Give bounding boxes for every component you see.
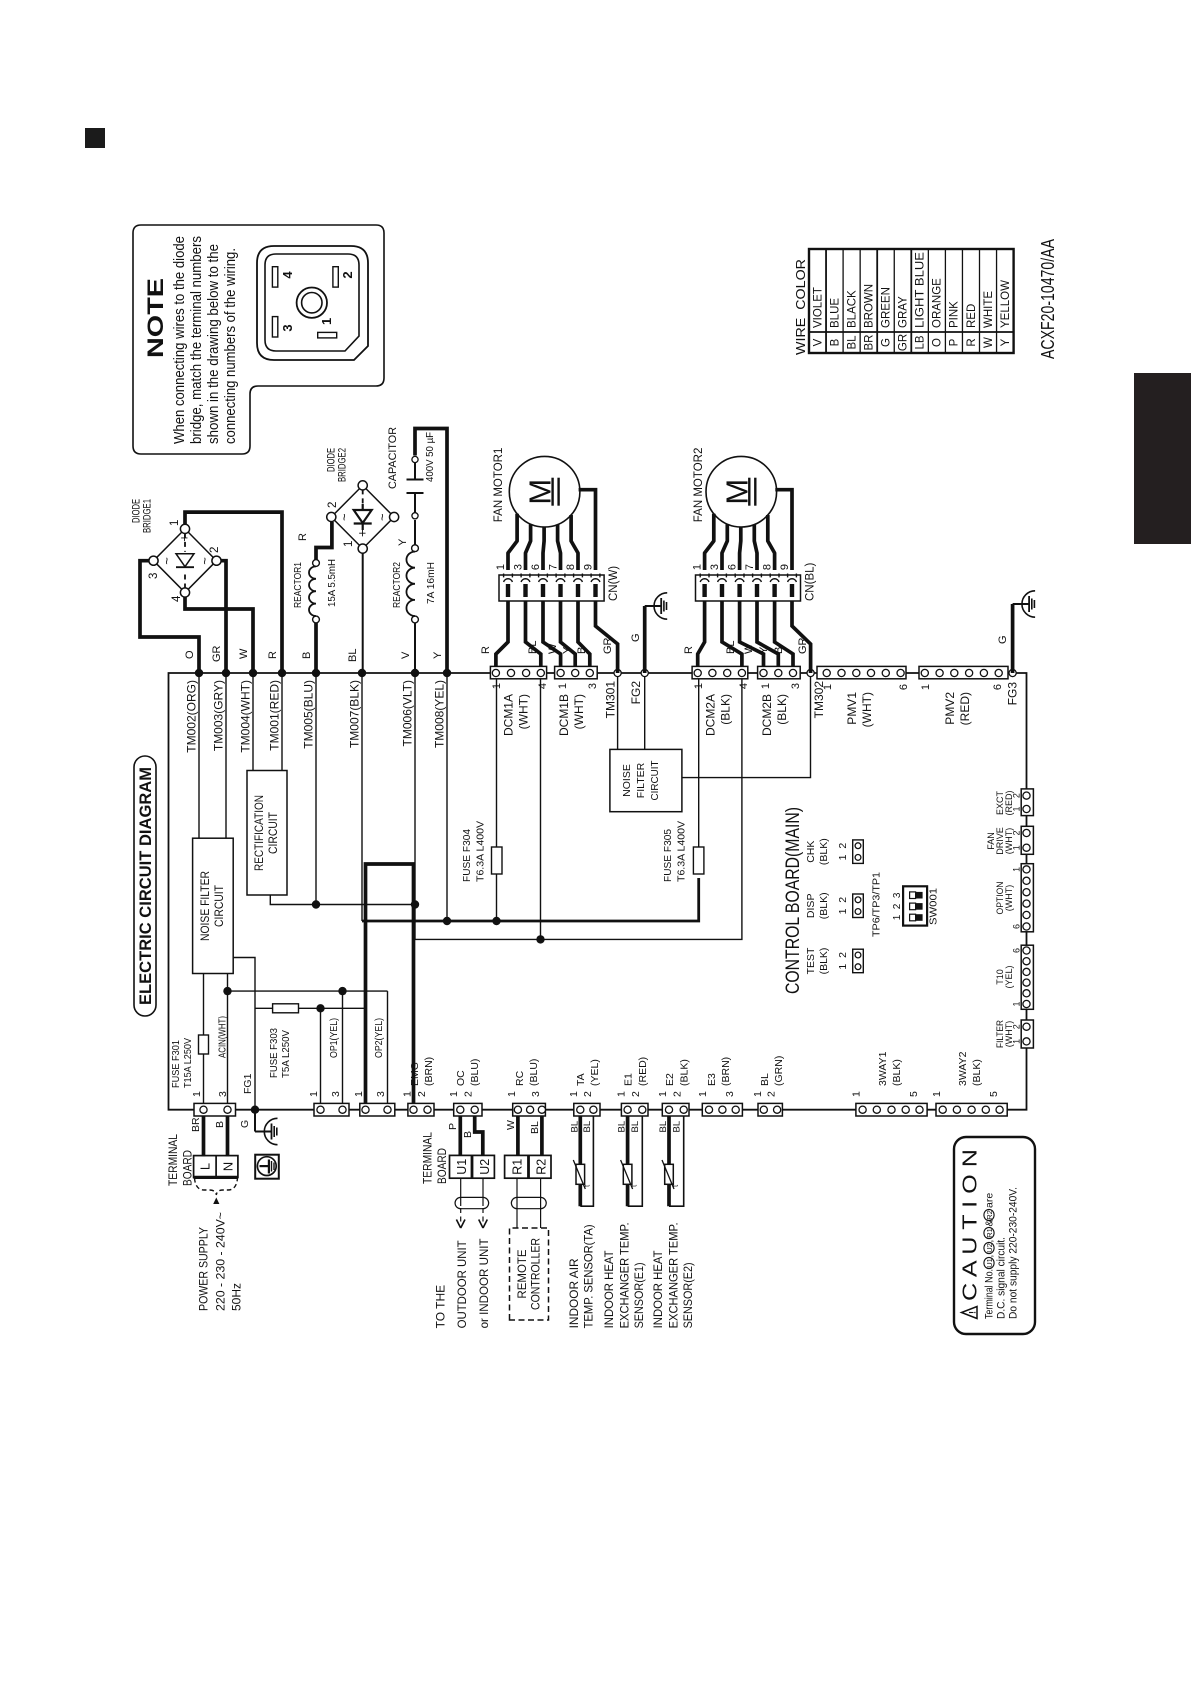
reactor2 coil: [391, 538, 437, 623]
svg-text:400V 50 µF: 400V 50 µF: [424, 432, 436, 482]
wire OP2 pin1 to EMG pin1 loop: [366, 864, 414, 1104]
svg-text:2: 2: [672, 1091, 684, 1097]
capacitor: [387, 427, 436, 493]
svg-text:RED: RED: [966, 304, 978, 328]
connector CN(BL): [696, 574, 801, 602]
svg-text:TM004(WHT): TM004(WHT): [239, 680, 253, 753]
svg-text:TO THE: TO THE: [434, 1285, 448, 1329]
connector PMV1 (WHT): [817, 666, 906, 678]
svg-text:Y: Y: [397, 538, 409, 546]
wire TM004 into rectification circuit: [252, 673, 254, 771]
svg-text:R: R: [297, 533, 309, 541]
svg-text:BROWN: BROWN: [863, 284, 875, 328]
svg-text:2: 2: [1012, 793, 1022, 798]
wire reactor2 to capacitor: [414, 520, 416, 545]
svg-text:1: 1: [308, 1091, 320, 1097]
connector ACIN(WHT): [194, 1103, 236, 1116]
svg-text:POWER SUPPLY: POWER SUPPLY: [197, 1227, 211, 1311]
svg-text:W: W: [983, 337, 995, 348]
wire TM006 V to reactor2: [414, 623, 416, 673]
svg-text:3: 3: [892, 892, 903, 898]
diode bridge connector drawing inner square: [265, 254, 359, 351]
svg-text:P: P: [447, 1123, 459, 1130]
ground symbol FG3: [1013, 591, 1036, 617]
svg-text:1: 1: [822, 684, 834, 690]
svg-text:WIRE COLOR: WIRE COLOR: [793, 259, 808, 355]
interior wire TM007: [361, 673, 363, 921]
svg-text:(BLK): (BLK): [818, 892, 830, 919]
svg-text:V: V: [400, 651, 412, 659]
svg-text:PMV2: PMV2: [943, 692, 957, 725]
connector DISP (BLK): [805, 892, 863, 919]
svg-text:t: t: [582, 1184, 591, 1187]
svg-text:3: 3: [375, 1091, 387, 1097]
svg-text:3WAY2: 3WAY2: [957, 1051, 969, 1086]
svg-text:2: 2: [837, 952, 849, 958]
svg-text:T6.3A L400V: T6.3A L400V: [475, 821, 487, 882]
svg-text:BL: BL: [630, 1121, 641, 1133]
title pill ELECTRIC CIRCUIT DIAGRAM: [134, 756, 156, 1016]
svg-text:B: B: [462, 1131, 474, 1138]
connector E2 (BLK): [662, 1103, 689, 1116]
svg-text:1: 1: [920, 684, 932, 690]
wire color table: [793, 249, 1014, 355]
svg-text:CIRCUIT: CIRCUIT: [268, 812, 280, 854]
wire B from terminal N to ACIN pin3: [226, 1116, 230, 1156]
svg-text:EXCHANGER TEMP.: EXCHANGER TEMP.: [667, 1222, 681, 1328]
svg-text:1: 1: [851, 1091, 863, 1097]
svg-text:CIRCUIT: CIRCUIT: [649, 760, 661, 801]
svg-text:TM008(YEL): TM008(YEL): [433, 680, 447, 748]
wire TM002 O to diode bridge1 pin3: [140, 561, 199, 673]
capacitor junction circle left: [412, 513, 418, 519]
wire FG1 to noise filter bottom: [233, 958, 255, 1110]
svg-text:VIOLET: VIOLET: [812, 287, 824, 328]
svg-text:TP6/TP3/TP1: TP6/TP3/TP1: [871, 872, 883, 937]
FAN MOTOR1 wires to connector: [579, 490, 596, 570]
svg-text:T6.3A L400V: T6.3A L400V: [676, 821, 688, 882]
svg-text:LIGHT BLUE: LIGHT BLUE: [915, 252, 927, 328]
svg-text:2: 2: [1012, 1024, 1022, 1029]
connector 3WAY2 (BLK): [936, 1103, 1007, 1116]
svg-text:B: B: [301, 652, 313, 659]
terminal TM007(BLK) junction on bus: [358, 669, 366, 677]
svg-text:INDOOR HEAT: INDOOR HEAT: [602, 1250, 616, 1329]
svg-text:SENSOR(E2): SENSOR(E2): [681, 1262, 695, 1328]
svg-text:R: R: [683, 646, 695, 654]
wires R1 R2 to remote controller: [516, 1178, 518, 1228]
svg-text:4: 4: [280, 271, 295, 279]
FAN MOTOR2 wires to connector: [775, 490, 792, 570]
fuse F305 on DCM2A pin1 wire: [698, 679, 700, 848]
svg-text:1: 1: [495, 564, 507, 570]
svg-text:TEMP. SENSOR(TA): TEMP. SENSOR(TA): [582, 1224, 596, 1328]
terminal board U1 U2 R1 R2: [421, 1132, 552, 1184]
wire B from OC pin2 to U2: [475, 1116, 483, 1155]
svg-text:6: 6: [898, 684, 910, 690]
thermistor E2: [662, 1116, 684, 1206]
connector TA (YEL): [574, 1103, 600, 1116]
svg-text:TA: TA: [575, 1073, 587, 1086]
svg-text:B: B: [773, 647, 785, 654]
svg-text:6: 6: [1012, 924, 1022, 929]
svg-text:R2: R2: [535, 1159, 549, 1175]
connector OC (BLU): [454, 1103, 482, 1116]
svg-text:FUSE F305: FUSE F305: [662, 829, 674, 882]
svg-text:FAN MOTOR2: FAN MOTOR2: [693, 448, 705, 523]
svg-text:4: 4: [738, 683, 750, 689]
svg-text:GREEN: GREEN: [881, 287, 893, 328]
svg-text:1: 1: [693, 683, 705, 689]
terminal TM005(BLU) junction on bus: [312, 669, 320, 677]
protective earth screw symbol: [255, 1155, 279, 1179]
svg-text:1: 1: [760, 683, 772, 689]
svg-text:6: 6: [1012, 948, 1022, 953]
svg-text:E1: E1: [623, 1073, 635, 1086]
noise filter circuit box: [193, 838, 234, 973]
svg-text:3: 3: [709, 564, 721, 570]
svg-text:R: R: [966, 338, 978, 346]
svg-text:(RED): (RED): [637, 1057, 649, 1086]
fuse F303 wire from FG1 wire down through OP pins 1: [255, 1007, 273, 1009]
connector FAN DRIVE (WHT): [1021, 826, 1033, 854]
svg-text:R: R: [267, 651, 279, 659]
svg-text:N: N: [221, 1162, 236, 1171]
svg-text:1: 1: [319, 318, 334, 325]
svg-text:2: 2: [1012, 830, 1022, 835]
svg-text:U1: U1: [455, 1159, 469, 1175]
svg-text:t: t: [630, 1184, 639, 1187]
svg-text:3: 3: [790, 683, 802, 689]
remote controller dashed box: [510, 1228, 549, 1320]
svg-text:5: 5: [908, 1091, 920, 1097]
connector CHK (BLK): [805, 838, 863, 865]
svg-text:2: 2: [766, 1091, 778, 1097]
svg-text:OUTDOOR UNIT: OUTDOOR UNIT: [455, 1240, 469, 1329]
rectification circuit box: [247, 771, 287, 896]
svg-text:CONTROLLER: CONTROLLER: [531, 1238, 543, 1310]
svg-text:3: 3: [330, 1091, 342, 1097]
svg-text:1: 1: [557, 683, 569, 689]
svg-text:ACXF20-10470/AA: ACXF20-10470/AA: [1038, 239, 1058, 359]
svg-text:NOISE: NOISE: [621, 764, 633, 797]
svg-text:7: 7: [744, 564, 756, 570]
svg-text:OP1(YEL): OP1(YEL): [328, 1018, 340, 1058]
svg-text:R: R: [480, 646, 492, 654]
svg-text:(WHT): (WHT): [517, 694, 531, 729]
svg-text:(BLK): (BLK): [891, 1059, 903, 1086]
terminal TM002(ORG) junction on bus: [195, 669, 203, 677]
svg-text:TM005(BLU): TM005(BLU): [302, 680, 316, 749]
svg-text:GR: GR: [211, 645, 223, 662]
connector slot 1: [318, 332, 337, 338]
svg-text:P: P: [949, 338, 961, 346]
svg-text:BR: BR: [190, 1117, 202, 1132]
terminal TM301: [614, 669, 621, 676]
ground symbol FG2: [645, 593, 668, 619]
svg-text:1: 1: [1012, 1039, 1022, 1044]
interior vertical feeder from rectification circuit: [270, 895, 415, 905]
svg-text:BLUE: BLUE: [829, 298, 841, 328]
svg-text:G: G: [881, 338, 893, 347]
svg-text:INDOOR AIR: INDOOR AIR: [567, 1258, 581, 1328]
svg-text:+: +: [177, 534, 192, 542]
svg-text:Y: Y: [432, 651, 444, 659]
svg-text:~: ~: [159, 557, 174, 565]
connector TEST (BLK): [805, 947, 863, 974]
svg-text:FUSE F301: FUSE F301: [170, 1040, 182, 1088]
svg-text:B: B: [829, 338, 841, 346]
svg-text:(BLK): (BLK): [679, 1059, 691, 1086]
svg-text:1: 1: [1012, 1001, 1022, 1006]
svg-text:(WHT): (WHT): [572, 694, 586, 729]
svg-text:FILTER: FILTER: [635, 762, 647, 798]
svg-text:INDOOR HEAT: INDOOR HEAT: [651, 1250, 665, 1329]
capacitor terminal circle right: [412, 456, 418, 462]
svg-text:+: +: [355, 529, 370, 537]
svg-text:C A U T I O N: C A U T I O N: [960, 1149, 982, 1301]
svg-text:T15A L250V: T15A L250V: [182, 1038, 194, 1088]
svg-text:BL: BL: [672, 1121, 683, 1133]
svg-text:BOARD: BOARD: [181, 1150, 195, 1186]
svg-text:1: 1: [568, 1091, 580, 1097]
svg-text:2: 2: [892, 903, 903, 909]
svg-text:TM007(BLK): TM007(BLK): [348, 680, 362, 748]
svg-text:1: 1: [657, 1091, 669, 1097]
svg-text:CONTROL BOARD(MAIN): CONTROL BOARD(MAIN): [782, 807, 804, 994]
svg-text:BL: BL: [759, 1073, 771, 1086]
wire TM001 into rectification circuit: [281, 673, 283, 771]
wire reactor1 to diode bridge2 pin2: [316, 522, 332, 560]
svg-text:LB: LB: [915, 335, 927, 349]
terminal TM003(GRY) junction on bus: [222, 669, 230, 677]
svg-text:FG2: FG2: [629, 681, 643, 705]
svg-text:BRIDGE1: BRIDGE1: [142, 499, 154, 533]
connector FILTER (WHT): [1021, 1020, 1033, 1048]
svg-text:ELECTRIC CIRCUIT DIAGRAM: ELECTRIC CIRCUIT DIAGRAM: [137, 767, 155, 1005]
svg-text:Y: Y: [758, 646, 770, 654]
svg-text:RECTIFICATION: RECTIFICATION: [254, 795, 266, 871]
interior wire TM006: [414, 673, 416, 939]
svg-text:REACTOR1: REACTOR1: [292, 562, 304, 608]
svg-text:1: 1: [169, 520, 181, 526]
wire TM002 into noise filter: [198, 673, 200, 838]
svg-text:(BRN): (BRN): [423, 1057, 435, 1086]
diode bridge2 DB2: [326, 448, 399, 553]
wire ACIN pin1 with fuse F301 to noise filter: [203, 1054, 205, 1104]
svg-text:GR: GR: [602, 637, 614, 654]
svg-text:3WAY1: 3WAY1: [877, 1051, 889, 1086]
svg-text:BL: BL: [658, 1121, 669, 1133]
svg-text:(BLK): (BLK): [818, 948, 830, 975]
FAN MOTOR1: [493, 448, 580, 527]
svg-text:FG3: FG3: [1006, 682, 1020, 706]
svg-text:T5A L250V: T5A L250V: [280, 1030, 292, 1078]
svg-text:GR: GR: [898, 334, 910, 351]
svg-text:1: 1: [353, 1091, 365, 1097]
diode bridge connector drawing outer square: [257, 246, 368, 360]
svg-text:1: 1: [402, 1091, 414, 1097]
svg-text:(BLK): (BLK): [719, 694, 733, 725]
svg-text:W: W: [743, 643, 755, 654]
svg-text:TM002(ORG): TM002(ORG): [185, 680, 199, 753]
svg-text:CHK: CHK: [805, 841, 817, 863]
svg-text:CN(W): CN(W): [608, 566, 620, 601]
wire OP2 pin3: [387, 991, 389, 1103]
svg-text:TEST: TEST: [805, 947, 817, 974]
svg-text:ORANGE: ORANGE: [932, 278, 944, 328]
svg-text:1: 1: [931, 1091, 943, 1097]
svg-text:E3: E3: [706, 1073, 718, 1086]
svg-text:EXCHANGER TEMP.: EXCHANGER TEMP.: [618, 1222, 632, 1328]
svg-text:(YEL): (YEL): [1004, 965, 1014, 988]
section marker black square: [85, 128, 105, 148]
connector EXCT (RED): [1021, 789, 1033, 816]
svg-text:G: G: [239, 1120, 251, 1128]
interior vertical feeder TM007 to fuses: [362, 878, 699, 921]
connector slot 4: [272, 267, 277, 287]
svg-text:W: W: [505, 1120, 517, 1130]
svg-text:1: 1: [343, 541, 355, 547]
connector OPTION (WHT): [1021, 864, 1033, 932]
side index black tab: [1134, 373, 1191, 544]
svg-text:1: 1: [448, 1091, 460, 1097]
svg-text:R1: R1: [511, 1159, 525, 1175]
svg-text:Terminal No.: Terminal No.: [984, 1269, 996, 1319]
wire noise filter 2 to TM302: [682, 673, 811, 778]
svg-text:50Hz: 50Hz: [230, 1283, 244, 1311]
svg-text:BRIDGE2: BRIDGE2: [337, 448, 349, 482]
connector T10 (YEL): [1021, 945, 1033, 1009]
wire FG1 to ground: [254, 1110, 256, 1132]
svg-text:!: !: [968, 1311, 978, 1314]
svg-text:DCM1B: DCM1B: [557, 694, 571, 736]
svg-text:(YEL): (YEL): [589, 1059, 601, 1086]
svg-text:FUSE F303: FUSE F303: [268, 1028, 280, 1078]
svg-text:TM001(RED): TM001(RED): [268, 680, 282, 751]
wire TM001 R to diode bridge1 pin1: [185, 512, 282, 673]
svg-text:shown in the drawing below to: shown in the drawing below to the: [206, 244, 222, 444]
control board outline (top edge, right bus edge, left edge, bottom edge): [169, 673, 1027, 1110]
svg-text:2: 2: [630, 1091, 642, 1097]
svg-text:(WHT): (WHT): [860, 692, 874, 727]
svg-text:8: 8: [762, 564, 774, 570]
svg-text:1: 1: [1012, 845, 1022, 850]
svg-text:2: 2: [209, 547, 221, 553]
svg-text:(BLK): (BLK): [971, 1059, 983, 1086]
svg-text:6: 6: [727, 564, 739, 570]
svg-text:1: 1: [506, 1091, 518, 1097]
svg-text:G: G: [997, 635, 1009, 644]
svg-text:FAN MOTOR1: FAN MOTOR1: [493, 448, 505, 523]
svg-text:9: 9: [583, 564, 595, 570]
svg-text:When connecting wires to the d: When connecting wires to the diode: [172, 236, 188, 444]
cable sheath stadium: [511, 1197, 546, 1208]
svg-text:3: 3: [724, 1091, 736, 1097]
svg-text:EMG: EMG: [409, 1062, 421, 1086]
svg-text:15A 5.5mH: 15A 5.5mH: [326, 559, 338, 607]
svg-text:1: 1: [837, 854, 849, 860]
svg-text:1: 1: [191, 1091, 203, 1097]
connector E3 (BRN): [702, 1103, 742, 1116]
svg-text:1: 1: [616, 1091, 628, 1097]
wire BL from RC pin3 to R2: [540, 1116, 544, 1155]
svg-text:2: 2: [837, 843, 849, 849]
svg-text:7: 7: [548, 564, 560, 570]
svg-text:TM301: TM301: [604, 681, 618, 719]
svg-text:SW001: SW001: [928, 888, 940, 925]
svg-text:1: 1: [1012, 867, 1022, 872]
svg-text:B: B: [576, 647, 588, 654]
svg-text:3: 3: [280, 324, 295, 331]
svg-text:connecting numbers of the wiri: connecting numbers of the wiring.: [223, 248, 239, 444]
connector DCM2A (BLK): [692, 666, 748, 678]
svg-text:2: 2: [340, 271, 355, 278]
svg-text:(BLU): (BLU): [469, 1059, 481, 1086]
svg-text:W: W: [238, 648, 250, 659]
caution box: [954, 1137, 1035, 1334]
svg-text:BR: BR: [863, 335, 875, 351]
svg-text:B: B: [214, 1121, 226, 1128]
wire TM008 Y to capacitor top: [415, 429, 447, 674]
svg-text:4: 4: [171, 595, 183, 602]
svg-text:DCM2A: DCM2A: [704, 694, 718, 736]
svg-text:ACIN(WHT): ACIN(WHT): [217, 1016, 229, 1058]
svg-text:L: L: [198, 1163, 213, 1170]
svg-text:Y: Y: [1000, 338, 1012, 346]
power supply brace and arrow: [195, 1178, 238, 1204]
connector DCM1B (WHT): [555, 666, 598, 678]
svg-text:3: 3: [587, 683, 599, 689]
svg-text:2: 2: [837, 897, 849, 903]
svg-text:BL: BL: [527, 641, 539, 654]
svg-text:1: 1: [491, 683, 503, 689]
thermistor TA: [573, 1116, 593, 1206]
connector OP1(YEL): [314, 1103, 349, 1116]
svg-text:1: 1: [837, 908, 849, 914]
svg-text:1: 1: [752, 1091, 764, 1097]
svg-text:BL: BL: [617, 1121, 628, 1133]
svg-text:2: 2: [416, 1091, 428, 1097]
svg-text:TERMINAL: TERMINAL: [166, 1134, 180, 1186]
svg-text:(BLK): (BLK): [818, 838, 830, 865]
connector E1 (RED): [621, 1103, 648, 1116]
svg-text:are: are: [984, 1193, 996, 1208]
svg-text:SENSOR(E1): SENSOR(E1): [632, 1262, 646, 1328]
wire TM007 BL to diode bridge2 pin1: [362, 553, 364, 673]
svg-text:FG1: FG1: [242, 1073, 254, 1094]
svg-text:2: 2: [463, 1091, 475, 1097]
vertical wire ACIN3 branch to OP pins 3: [228, 990, 388, 992]
reactor1 coil: [292, 533, 338, 623]
svg-text:WHITE: WHITE: [983, 291, 995, 328]
svg-text:5: 5: [988, 1091, 1000, 1097]
svg-text:(BLK): (BLK): [775, 694, 789, 725]
svg-text:1: 1: [1012, 806, 1022, 811]
svg-text:TERMINAL: TERMINAL: [421, 1132, 435, 1184]
svg-text:3: 3: [148, 573, 160, 579]
svg-text:2: 2: [327, 502, 339, 508]
svg-text:DCM2B: DCM2B: [760, 694, 774, 736]
wire BR from terminal L to ACIN pin1: [202, 1116, 206, 1156]
svg-text:G: G: [630, 633, 642, 642]
svg-text:O: O: [184, 650, 196, 659]
noise filter circuit box near FG2: [610, 749, 682, 811]
connector centre screw circle: [297, 287, 327, 317]
svg-text:4: 4: [537, 683, 549, 689]
connector slot 3: [272, 317, 277, 337]
svg-text:YELLOW: YELLOW: [1000, 280, 1012, 328]
